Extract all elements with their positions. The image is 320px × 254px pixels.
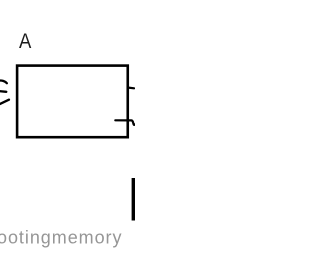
svg-text:A: A <box>19 30 32 53</box>
svg-text:ootingmemory: ootingmemory <box>0 227 122 247</box>
